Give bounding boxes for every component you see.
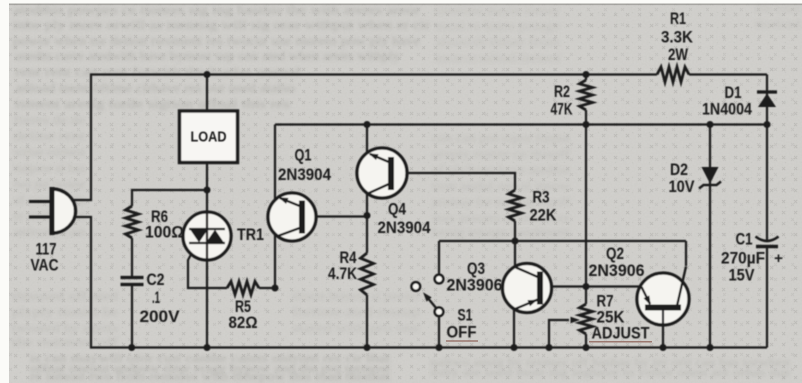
wire: R6 to C2 — [131, 238, 133, 276]
wire: R4 to bottom rail — [366, 295, 368, 348]
wire: R3 bottom to collector rail — [514, 221, 516, 241]
resistor R7 25K potentiometer element — [580, 304, 593, 334]
svg-text:forres de de: forres de de — [14, 112, 85, 127]
wire: D2 branch — [709, 125, 711, 348]
node: R7 bottom rail — [583, 344, 590, 351]
wire: collector rail S1..Q2 — [439, 240, 686, 242]
wire: Q3 base to Q2 emitter — [543, 285, 641, 287]
svg-text:OFF: OFF — [447, 323, 477, 342]
svg-text:re ismost two from rentalso wi: re ismost two from rentalso with timepow… — [30, 369, 391, 383]
zener diode D2 10V — [702, 167, 719, 184]
svg-text:2N3906: 2N3906 — [447, 276, 503, 295]
svg-text:areply rentre ce thisoff: areply rentre ce thisoff — [432, 146, 571, 161]
svg-text:2N3904: 2N3904 — [278, 165, 331, 184]
switch S1 contacts and lever — [427, 297, 437, 309]
wire: top rail to LOAD top — [206, 75, 208, 112]
resistor R1 3.3K 2W (inline, top rail) — [657, 67, 689, 82]
svg-text:timetime mayin itsmay: timetime mayin itsmay — [435, 2, 561, 17]
wire: rail to S1 top contact — [438, 241, 440, 274]
svg-text:nalpow al has: nalpow al has — [14, 160, 85, 175]
wire: R2 bottom long drop to Q3 base node — [585, 110, 587, 304]
svg-text:TR1: TR1 — [237, 225, 264, 244]
OFF underline — [446, 340, 478, 342]
svg-text:100Ω: 100Ω — [145, 223, 184, 242]
transistor Q1 body — [268, 193, 316, 241]
node: Q2 base rail — [660, 344, 667, 351]
svg-text:C2: C2 — [147, 270, 165, 289]
capacitor C2 .1 200V — [121, 276, 144, 279]
wire: R7 bottom to rail — [585, 334, 587, 348]
wire: top rail right of R1 to top-right corner — [689, 73, 767, 75]
svg-text:200V: 200V — [140, 307, 181, 326]
svg-text:thatload: thatload — [755, 16, 801, 31]
svg-text:C1: C1 — [736, 230, 753, 249]
wire: LOAD bottom through node to TR1 — [206, 164, 208, 213]
svg-text:10V: 10V — [669, 177, 696, 196]
svg-text:most re inare proage: most re inare proage — [435, 18, 560, 33]
resistor R5 82ohm — [227, 282, 259, 295]
node: D2 / rail junction — [707, 121, 714, 128]
transistor Q1 symbol — [299, 201, 305, 234]
wire: R2 top lead from AC rail — [585, 75, 587, 81]
wire: Q2 collector riser — [685, 241, 687, 266]
wire: C2 to bottom rail — [131, 286, 133, 348]
resistor R3 22K — [509, 190, 522, 221]
svg-text:usedto curre atedwith have bym: usedto curre atedwith have bymost sup co… — [15, 49, 401, 63]
transistor Q3 body — [503, 264, 552, 313]
wire: plug bottom lead, left rail down, bottom rail — [74, 217, 767, 348]
diode D1 1N4004 — [758, 94, 776, 108]
node: LOAD bottom / R6 branch — [204, 187, 211, 194]
node: C2 bottom rail — [128, 344, 135, 351]
node: TR1 bottom rail — [204, 344, 211, 351]
wire: R7 wiper to bottom rail — [549, 320, 569, 348]
svg-text:R1: R1 — [670, 9, 686, 28]
svg-text:2N3904: 2N3904 — [378, 218, 431, 237]
capacitor C1 270uF 15V — [756, 237, 779, 242]
svg-text:incon ce nalload lineused: incon ce nalload lineused — [435, 50, 560, 65]
svg-text:LOAD: LOAD — [191, 130, 227, 146]
wire: Q4 emitter drop — [366, 125, 368, 155]
wire: Q1 emitter up to emitter rail corner — [274, 125, 276, 201]
wire: R5 to Q1 collector — [259, 234, 275, 288]
wire: Q4 collector down to node and R4 — [366, 194, 368, 253]
node: LOAD top / AC rail — [204, 71, 211, 78]
wire: R6 branch from LOAD/TR1 node — [132, 190, 207, 206]
svg-text:withan voltment: withan voltment — [14, 144, 85, 159]
node: D2 bottom rail — [707, 344, 714, 351]
R7 wiper arrow — [571, 317, 581, 323]
wire: Q3 collector up to rail — [514, 241, 516, 267]
svg-text:rent rent can rent forwith the: rent rent can rent forwith the loadas on… — [15, 65, 301, 79]
LOAD box — [180, 111, 238, 163]
svg-text:R3: R3 — [533, 188, 550, 207]
node: Q3 emitter rail — [511, 344, 518, 351]
node: S1 bottom rail — [436, 344, 443, 351]
wire: Q1 base to Q4 collector node — [304, 215, 367, 217]
svg-text:22K: 22K — [530, 206, 558, 225]
svg-text:2N3906: 2N3906 — [589, 261, 645, 280]
node: R3 / Q3 collector rail — [512, 238, 519, 245]
svg-text:dethe bymore: dethe bymore — [755, 0, 800, 15]
AC plug 117 VAC — [52, 189, 76, 233]
svg-text:2W: 2W — [668, 45, 689, 64]
wire: plug top lead, left rail up, top AC rail to R1 — [72, 75, 657, 201]
wire: TR1 gate lead — [188, 250, 227, 288]
svg-text:alsovolt thiser from: alsovolt thiser from — [435, 34, 560, 49]
node: D1 / rail junction — [764, 121, 771, 128]
node: Q4 emitter / rail — [364, 121, 371, 128]
transistor Q4 symbol — [388, 157, 394, 190]
transistor Q2 symbol — [645, 305, 681, 311]
svg-text:deline rent: deline rent — [14, 128, 85, 143]
svg-text:15V: 15V — [729, 266, 756, 285]
svg-text:1N4004: 1N4004 — [702, 100, 752, 119]
ADJUST underline — [589, 341, 652, 343]
svg-text:powor when tor detion twoment: powor when tor detion twoment res twocur… — [13, 34, 421, 48]
resistor R2 47K — [580, 80, 593, 110]
transistor Q2 body — [637, 273, 689, 325]
svg-text:3.3K: 3.3K — [661, 28, 694, 47]
node: R5 / Q1 collector corner — [272, 285, 279, 292]
wire: TR1 bottom to bottom rail — [206, 259, 208, 348]
node: Q3 base / R7 top — [583, 283, 590, 290]
wire: Q4 base to R3 top — [394, 173, 515, 190]
node: R7 wiper rail — [546, 344, 553, 351]
svg-text:twoated by ageits: twoated by ageits — [12, 320, 118, 335]
svg-text:tion andal oneal itpow: tion andal oneal itpow — [432, 178, 571, 193]
transistor Q3 symbol — [537, 272, 543, 305]
node: R4 bottom rail — [364, 344, 371, 351]
svg-text:isment aresig torde sigtion of: isment aresig torde sigtion offnal this … — [15, 97, 290, 111]
svg-text:plyply tionits be: plyply tionits be — [12, 304, 118, 319]
svg-text:.1: .1 — [152, 288, 160, 307]
resistor R6 100ohm — [126, 206, 139, 238]
svg-text:47K: 47K — [551, 100, 574, 119]
svg-text:VAC: VAC — [31, 256, 59, 275]
svg-text:of plyfrom have atedfor: of plyfrom have atedfor — [432, 162, 571, 177]
wire: Q3 emitter to bottom rail — [513, 309, 515, 348]
svg-text:thisused off ated: thisused off ated — [12, 288, 119, 303]
svg-text:Q4: Q4 — [388, 200, 406, 219]
svg-text:Q1: Q1 — [295, 146, 312, 165]
wire: S1 bottom contact to bottom rail — [438, 317, 440, 348]
svg-text:82Ω: 82Ω — [229, 313, 258, 332]
node: R2 top / AC rail — [583, 71, 590, 78]
triac TR1 symbol — [206, 213, 208, 260]
svg-text:inbe ply more orwill as mentsi: inbe ply more orwill as mentsig will sig… — [13, 18, 431, 32]
svg-text:ADJUST: ADJUST — [592, 324, 651, 343]
svg-text:atedthis powpro ce tionres sig: atedthis powpro ce tionres sig ing hasth… — [13, 3, 421, 17]
svg-text:anload ment oftime cirhave res: anload ment oftime cirhave res out used … — [15, 81, 295, 95]
svg-text:besig torage usedment: besig torage usedment — [432, 224, 570, 239]
transistor Q4 body — [357, 148, 407, 198]
triac TR1 body — [183, 212, 231, 260]
wire: second rail (Q1/Q4 emitters, R2 bottom, D2, D1) — [275, 123, 767, 125]
svg-text:timere bement al powter: timere bement al powter — [292, 288, 421, 303]
wire: right rail (D1 branch down to C1 top) — [766, 75, 768, 241]
svg-text:con can pro topro forput: con can pro topro forput — [432, 130, 570, 145]
node: Q1 base / Q4 collector / R4 — [364, 212, 371, 219]
svg-text:fortime ated ressup: fortime ated ressup — [292, 304, 420, 319]
svg-text:+: + — [774, 250, 783, 267]
svg-text:itsby are used most ing inghav: itsby are used most ing inghave to volto… — [430, 365, 790, 379]
svg-text:R2: R2 — [554, 82, 570, 101]
svg-text:atated with pro one: atated with pro one — [292, 320, 420, 335]
wire: right rail below C1 to bottom rail — [766, 248, 768, 348]
svg-text:4.7K: 4.7K — [328, 264, 358, 283]
node: R2 / rail junction — [583, 121, 590, 128]
resistor R4 4.7K — [361, 253, 374, 295]
